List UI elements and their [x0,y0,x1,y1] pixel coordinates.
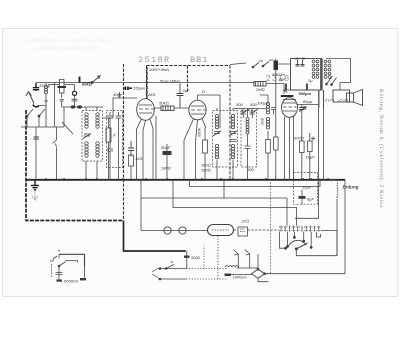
svg-text:D: D [202,89,205,94]
trimmer caps box3 [241,108,259,155]
selector drops [279,232,320,250]
cap phono [56,273,63,275]
wire shield vertical x123 [123,64,125,220]
coil in box3 [246,118,249,135]
wires box1 verticals to bus [86,107,97,180]
ground terminal Erdung [328,180,338,201]
wire phono right drop [84,267,86,278]
wire phono top [59,254,85,266]
voltage selector strip [279,226,321,232]
svg-text:1kΩ: 1kΩ [135,156,142,161]
svg-text:2µ 4µ: 2µ 4µ [294,56,306,61]
cap 500pF tube1 left [128,141,134,157]
tube V1 AH1 [137,99,155,121]
volume pot cluster [58,80,67,108]
svg-text:50µF: 50µF [161,145,171,150]
wire stub 224 [223,180,225,199]
wire terminal down [72,96,78,108]
top switch contacts [252,62,269,68]
cap left input [34,137,40,139]
tube V3 output [282,98,298,118]
wire ballast to selector [234,229,280,231]
wire top rail right of resistor [266,83,284,85]
svg-text:40: 40 [113,92,118,97]
wire box2 drops [217,108,233,180]
coil box 1 dashed [82,111,103,162]
wire lever bottom out [296,249,337,256]
svg-text:100Ω: 100Ω [201,168,211,173]
core lines [321,59,323,91]
svg-text:50kΩm: 50kΩm [272,72,286,77]
svg-text:Schaltbilder Sammlung 1938: Schaltbilder Sammlung 1938 [35,46,99,52]
svg-text:22Ω: 22Ω [241,219,250,224]
wire diamond connections [258,254,345,282]
wire tube1 pins to bus [137,116,157,180]
tube1 cathode legs [137,119,154,151]
wire chassis staircase mid [124,221,186,252]
phono contacts [53,254,78,279]
svg-text:600: 600 [260,118,265,125]
wire shield box top y65.5 [147,65,231,67]
svg-text:100: 100 [247,167,254,172]
svg-text:500Ω: 500Ω [294,136,304,141]
svg-text:2µ: 2µ [307,78,313,83]
svg-text:50kΩ: 50kΩ [159,101,169,106]
svg-text:5000: 5000 [191,255,201,260]
resistor 300 ohm [203,128,208,180]
svg-text:8µF: 8µF [279,77,287,82]
antenna [26,92,39,107]
wire left low rail y127 [21,126,64,128]
svg-text:BB1: BB1 [190,55,208,65]
junction blobs top of box1 [70,105,82,108]
scan page tint [3,29,398,296]
junction dots on bus [45,178,329,180]
tube V2 D [189,100,206,120]
wire top of box1 rail [62,106,103,108]
cap bar 60k [80,77,92,87]
svg-text:6µF: 6µF [307,197,315,202]
cap 2uF screen [177,84,191,109]
svg-text:2MΩ: 2MΩ [255,87,265,92]
svg-text:500µm: 500µm [299,91,312,96]
switch kink on 56 [53,140,57,148]
coil windings box1 right [96,113,99,157]
ground symbol left [31,180,39,201]
wire selector to right [321,231,337,256]
wire y108 link [234,108,266,110]
switch lever into box1 [62,122,73,134]
coil box 2 dashed [213,111,238,168]
windings left pair [312,60,319,78]
svg-text:10µF: 10µF [302,185,312,190]
svg-text:5000cm: 5000cm [64,279,79,284]
speaker field bumps [325,100,348,102]
shield dashes phono [51,264,53,278]
wire main ground bus [26,179,345,181]
coil box 3 dashed caps [241,111,257,168]
wire tube3 pins [285,116,294,180]
wire if drop below bus [270,182,272,274]
coil bumps 1000ohm [225,266,248,280]
wire levers rail [237,267,258,269]
electrolytic block box [294,172,318,204]
wire grid leak drop [108,118,110,180]
cap 150 top left [124,86,146,91]
resistor on 275 drop [274,137,279,180]
speaker [347,90,363,106]
wire box bottom rail y90 [283,89,318,91]
cap 6uF block [299,190,315,204]
wire top right loop [326,59,351,91]
variable cap tone [299,99,313,113]
wire tube3 anode right [297,104,319,106]
power transformer box [291,59,322,91]
wire pad to diamond [231,274,252,276]
dial lamp 2 [179,227,186,234]
wire shield right x230 [229,66,231,180]
svg-text:2518R: 2518R [138,55,171,65]
wire tube2 anode top [198,95,221,128]
svg-text:150µm: 150µm [133,86,146,91]
coil box 1b dashed [107,111,123,168]
svg-text:4000: 4000 [197,128,202,138]
resistor box right of ballast [238,227,248,236]
svg-text:2µF: 2µF [182,88,191,93]
wire speaker drop [319,90,324,108]
cap 10uF tube3 [306,133,316,180]
stub bar right [306,84,308,91]
scan page border [3,29,399,297]
svg-text:10µF: 10µF [306,155,316,160]
tube2 legs [184,119,206,143]
heater line with lamps [141,230,208,232]
wire left box1 drop [63,107,65,127]
windings right pair [324,60,331,78]
wire box3 drops [247,109,249,180]
resistor 1k cathode [129,155,143,180]
wire tube1 anode up [146,66,148,99]
coil windings box2 left [215,114,218,158]
wire tube1 to 50k [154,107,189,109]
dial lamp 1 [164,227,171,234]
selector arc [288,240,306,247]
svg-text:180Ω: 180Ω [161,166,171,171]
coil windings box2 right [231,114,234,158]
output section loop [295,90,324,218]
resistor 2MOhm horizontal [254,82,266,93]
wire tube2 pins [184,127,206,180]
svg-text:Radiotechnik und Schaltungen B: Radiotechnik und Schaltungen Band [28,38,109,44]
cap 100pF IF [271,108,276,115]
wire box1 to tube1 grid [103,98,137,118]
resistor 50k top [272,61,286,78]
svg-text:1000cm: 1000cm [233,275,248,280]
wire left drop to bus [36,127,57,180]
phono jack detail [50,248,86,284]
wire antenna hook to coil [39,101,46,127]
IF coil right column [257,101,270,130]
svg-text:AH1: AH1 [147,92,156,97]
wire right risers [337,180,345,274]
wire grid rail into tube3 [283,84,285,95]
svg-text:Körting, Novum 6, (Cyklostron): Körting, Novum 6, (Cyklostron), 2 Kreise [378,89,385,208]
stub bar left [285,84,287,91]
terminal circle [72,91,76,95]
wire top switch rail [230,59,291,138]
wire IF coil drops [260,95,268,180]
cap 5000pF mains [184,251,201,269]
selector lever [295,243,307,250]
switch lever pair bottom [233,250,249,269]
svg-text:500: 500 [236,102,243,107]
field coil box [333,90,350,102]
nested return wire 3 [173,180,297,226]
padding caps right of box1 [107,112,122,180]
wire 60k elbow [48,82,80,91]
wire shield mid x187.5 [187,66,189,93]
antenna coil [44,83,48,102]
trimmers box2 [213,131,237,136]
electrolytic 50uF [161,144,172,180]
svg-text:200V+4mA: 200V+4mA [148,67,169,72]
cap 40 mark [113,92,122,98]
ground pad phono [57,280,63,282]
wire top rail drop x54 [54,83,56,128]
band switch left [26,109,45,127]
resistor on IF drop [266,140,271,154]
rectifier strokes [326,76,337,85]
wire chassis staircase left [26,110,124,221]
wire shield left x146 [146,66,148,100]
wire mains to selector [186,235,228,279]
grid cap bar tube3 [281,91,294,97]
nested return wire 2 [141,180,287,231]
antenna capacitor 150pF [33,83,51,92]
switch arrow 60k [81,76,100,84]
trimmer in box1 [83,134,91,139]
mains switch [152,265,186,280]
svg-text:80µµ: 80µµ [303,99,313,104]
wire top rail y83 [37,82,254,84]
caps 2u 4u in box [294,56,306,67]
resistor 500 ohm tube3 [294,113,304,180]
ballast tube oval [208,225,234,236]
coil windings box1 left [85,113,88,157]
resistor 0.3M left of tube1 [106,128,116,142]
resistor 50k coupling [159,101,174,111]
cap ticks box2 [230,140,237,142]
diamond bridge [252,268,266,278]
ground pad phono right [80,278,86,280]
nested return wire 1 [190,180,321,187]
